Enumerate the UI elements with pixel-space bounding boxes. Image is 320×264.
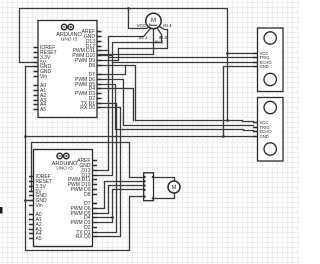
clipped component at left edge [0,207,3,214]
junction dot U2 GND branch [24,199,27,202]
svg-text:A5: A5 [36,236,42,242]
svg-text:M: M [151,17,156,24]
wire motor2 bottom return [154,193,175,199]
junction dot sensor1 VCC tap [226,52,229,55]
junction dot driver pin4 wire [111,216,114,219]
wire 5V top rail from U1 5V around left and top [20,9,228,121]
wire IN1 riser [109,29,151,58]
svg-text:VCC: VCC [137,23,147,28]
junction dot GND rail left [24,135,27,138]
wire VCC rail to sensor2 VCC [136,121,254,122]
wire U2 D13 riser to sensor1 TRIG [98,58,254,171]
wire U2 D3 joins driver pin4 wire [98,218,113,223]
wire U1 TX D1 to U2 TX D1 [98,104,117,233]
svg-text:IN 1: IN 1 [139,35,148,40]
op-amp U2 Arduino UNO r3 (bottom) [29,150,97,247]
svg-text:RX D0: RX D0 [80,105,95,111]
wire U1 D4 joins VCC rail [98,89,134,121]
wire U1 IN2 center to motor1 [99,29,154,55]
wire U1 D8 to VCC rail riser [98,66,136,121]
wire motor1 VCC to top rail [129,9,150,29]
svg-text:Vin: Vin [40,74,47,80]
wire U2 D4 to driver pin4 [98,190,144,218]
ultrasonic sensor S1 HC-SR04 (top right) [253,28,283,92]
svg-text:UNO r3: UNO r3 [61,37,78,43]
svg-text:A5: A5 [40,107,46,113]
wire branch to U2 GND [26,200,34,202]
ultrasonic sensor S2 HC-SR04 (right) [253,98,283,162]
svg-text:D8: D8 [89,63,96,69]
wire U1 RX D0 to U2 RX D0 [98,108,121,237]
junction dot VCC rail corner [226,119,229,122]
wire U2 D5 to driver pin3 [98,186,144,214]
svg-text:D8: D8 [84,192,91,198]
wire U2 5V rail to driver pin1 [32,143,144,192]
svg-text:GND: GND [260,134,269,139]
wire U1 D11 stub to riser [98,50,109,52]
svg-text:GND: GND [260,64,269,69]
wire VCC branch to sensor1 VCC [228,53,254,55]
wire U1 D10 stub to riser [98,55,113,57]
svg-text:IN 2: IN 2 [155,39,164,44]
junction dot GND rail sensors [222,135,225,138]
svg-text:UNO r3: UNO r3 [56,166,73,172]
wire driver to motor2 top [154,178,175,183]
svg-text:Vin: Vin [36,203,43,209]
motor M2 (bottom) [168,181,180,193]
wire sensor1 GND riser [224,67,254,137]
driver module U3 [144,173,154,201]
junction dot top rail / motor VCC [127,7,130,10]
svg-text:RX D0: RX D0 [76,234,91,240]
wire U1 D6 to sensor2 TRIG [98,80,254,126]
wire U1 D9 to motor1 IN4 [98,27,168,61]
wire GND rail to sensors [26,136,254,138]
wire U2 D12 riser to sensor1 ECHO [98,63,254,176]
op-amp U1 Arduino UNO r3 (top) [34,21,102,118]
wire U1 D5 to sensor2 ECHO [98,85,254,131]
svg-text:M: M [172,185,177,191]
motor M1 (top) [146,13,161,28]
wire U1 GND down left side and wrap to driver pin5 [26,67,144,251]
wire IN3 riser [113,29,162,63]
svg-text:IN 4: IN 4 [163,23,172,28]
wire U1 D7 joins D8 rail [98,66,126,75]
wire U2 D6 to driver pin2 [98,182,144,209]
